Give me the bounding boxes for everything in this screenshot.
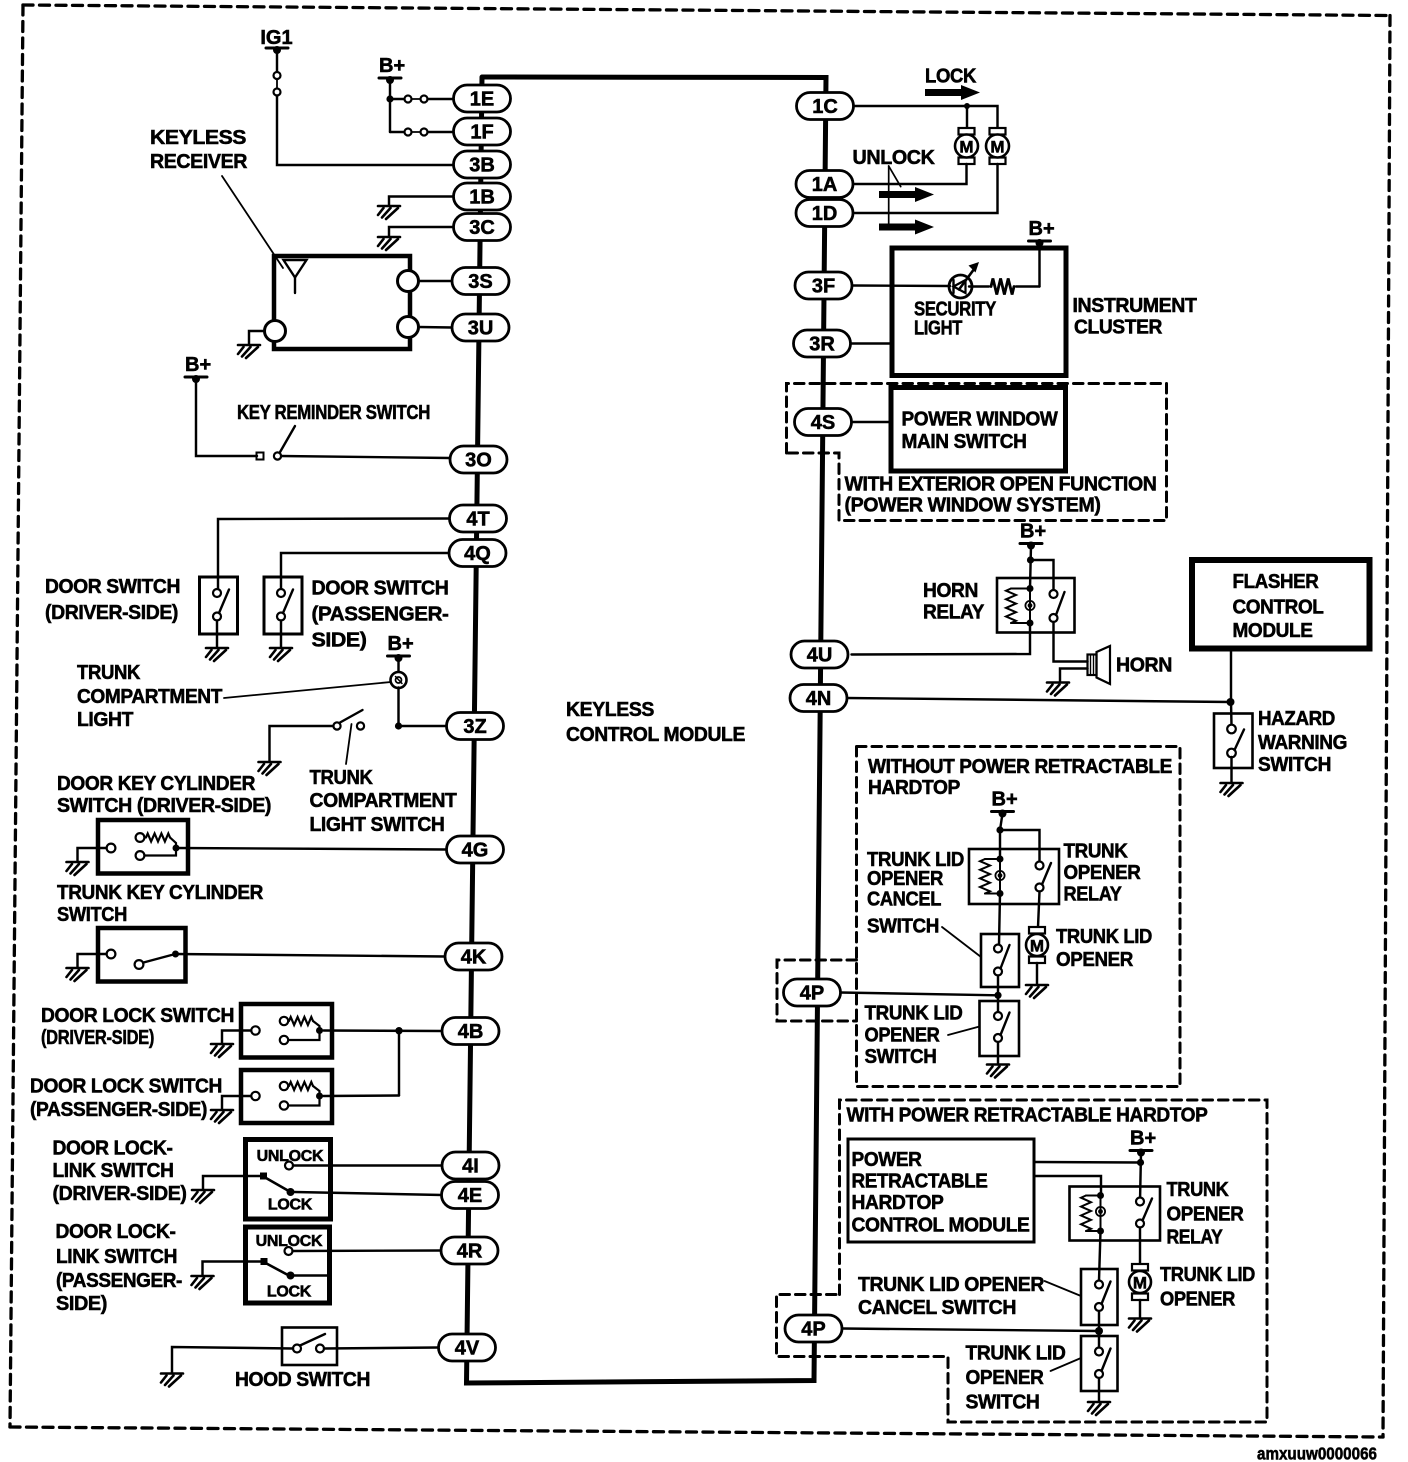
svg-text:RETRACTABLE: RETRACTABLE [852, 1171, 988, 1193]
flasher control module box [1192, 560, 1370, 649]
leader line to light switch [346, 724, 352, 764]
svg-text:TRUNK LID: TRUNK LID [1160, 1264, 1255, 1286]
label KEY REMINDER SWITCH [237, 402, 430, 424]
label HAZARD WARNING SWITCH [1258, 708, 1347, 776]
in-line connector on 1F wire [405, 129, 428, 136]
svg-text:3C: 3C [469, 217, 495, 239]
ground (door switch passenger) [270, 648, 292, 661]
dashed box: WITH POWER RETRACTABLE HARDTOP region [777, 1100, 1268, 1422]
trunk lid opener switch (PRHT) [1081, 1336, 1118, 1391]
ground (hazard switch) [1221, 783, 1243, 796]
connector 4P (upper) [784, 979, 841, 1006]
svg-text:HORN: HORN [1116, 655, 1172, 677]
svg-text:3S: 3S [468, 271, 492, 293]
in-line connector on IG1 wire [274, 72, 281, 96]
ground (3C) [378, 237, 400, 250]
wire relay switch to trunk lid opener motor [1038, 892, 1040, 928]
svg-text:1A: 1A [812, 174, 838, 196]
wire relay coil to cancel switch (PRHT) [1099, 1231, 1101, 1281]
svg-text:B+: B+ [992, 789, 1018, 811]
svg-text:WITH POWER RETRACTABLE HARDTOP: WITH POWER RETRACTABLE HARDTOP [847, 1105, 1208, 1127]
ground (trunk lid opener switch PRHT) [1088, 1402, 1110, 1415]
label DOOR SWITCH (DRIVER-SIDE) [45, 576, 180, 624]
svg-text:RELAY: RELAY [923, 602, 985, 624]
trunk lid opener cancel switch (PRHT) [1081, 1269, 1118, 1325]
svg-text:M: M [990, 138, 1004, 157]
label HORN [1116, 655, 1172, 677]
svg-text:SWITCH (DRIVER-SIDE): SWITCH (DRIVER-SIDE) [57, 795, 271, 817]
svg-text:(PASSENGER-: (PASSENGER- [312, 604, 449, 626]
door lock motor 1 [955, 128, 978, 164]
label TRUNK LID OPENER (PRHT motor) [1160, 1264, 1255, 1311]
wire to 1F [428, 131, 454, 133]
power terminal B+ (PRHT) [1130, 1128, 1156, 1157]
junction (4B wire) [395, 1027, 402, 1034]
junction (hazard node) [1227, 698, 1235, 706]
svg-text:LOCK: LOCK [267, 1284, 312, 1301]
wire link switch (passenger) to ground [203, 1262, 261, 1277]
svg-text:DOOR LOCK SWITCH: DOOR LOCK SWITCH [30, 1076, 222, 1098]
door lock-link switch (passenger-side) [246, 1227, 330, 1303]
svg-text:DOOR KEY CYLINDER: DOOR KEY CYLINDER [57, 773, 256, 795]
svg-text:B+: B+ [185, 354, 211, 376]
label TRUNK LID OPENER CANCEL SWITCH [867, 849, 964, 938]
svg-text:SWITCH: SWITCH [966, 1392, 1040, 1414]
connector 4G [447, 836, 504, 863]
wire cancel switch to opener switch [997, 976, 999, 1017]
junction (3Z wire) [395, 722, 402, 729]
svg-text:LIGHT: LIGHT [77, 709, 133, 731]
connector 4B [442, 1018, 499, 1045]
door lock switch (driver-side) [241, 1004, 332, 1058]
ground (link switch passenger) [192, 1276, 214, 1289]
connector 4Q [449, 540, 506, 567]
key reminder switch blade [280, 426, 296, 453]
svg-text:UNLOCK: UNLOCK [853, 147, 936, 169]
label DOOR LOCK-LINK SWITCH (PASSENGER-SIDE) [56, 1221, 183, 1315]
svg-text:RELAY: RELAY [1064, 884, 1123, 906]
receiver terminal (ground side) [265, 321, 286, 342]
receiver terminal (3S) [398, 271, 419, 292]
wire 3R to instrument cluster [851, 342, 893, 344]
svg-text:1B: 1B [469, 187, 495, 209]
leader line to trunk compartment light [224, 682, 391, 698]
wire relay switch to motor (PRHT) [1139, 1228, 1141, 1265]
label HOOD SWITCH [235, 1369, 370, 1391]
wire receiver to ground [249, 331, 265, 345]
ground (link switch driver) [192, 1190, 214, 1203]
connector 4N [790, 685, 847, 712]
svg-text:3F: 3F [812, 276, 835, 298]
svg-text:M: M [1133, 1274, 1147, 1293]
power terminal IG1 [260, 27, 292, 54]
ground (horn) [1047, 683, 1069, 696]
connector 4V [439, 1334, 496, 1361]
label DOOR SWITCH (PASSENGER-SIDE) [312, 578, 449, 652]
ground (door key cylinder) [67, 862, 89, 875]
connector 1C [797, 93, 854, 120]
svg-text:OPENER: OPENER [1160, 1289, 1236, 1311]
svg-text:CONTROL MODULE: CONTROL MODULE [852, 1215, 1030, 1237]
power window main switch box [891, 388, 1066, 472]
wire motor to ground (trunk lid opener) [1036, 963, 1038, 985]
connector 3B [454, 151, 511, 178]
wire cancel switch to opener switch (PRHT) [1098, 1311, 1100, 1352]
svg-text:(DRIVER-SIDE): (DRIVER-SIDE) [45, 602, 178, 624]
wire bulb to 3Z wire [397, 688, 399, 727]
ground (receiver) [238, 345, 260, 358]
svg-text:POWER: POWER [852, 1149, 923, 1171]
connector 3S [452, 268, 509, 295]
wire junction to relay coil (trunk opener) [999, 830, 1001, 859]
svg-text:4T: 4T [466, 509, 489, 531]
label HORN RELAY [923, 580, 985, 624]
trunk lid opener switch (without PRHT) [980, 1001, 1020, 1056]
label SECURITY LIGHT [914, 299, 997, 340]
trunk opener relay box [969, 849, 1059, 904]
junction (PRHT feed) [1137, 1159, 1144, 1166]
label TRUNK KEY CYLINDER SWITCH [57, 882, 264, 926]
wire motor 1 to 1A [853, 164, 967, 184]
wire B+ to junction [1000, 814, 1003, 831]
wire 4Q to door switch (passenger) [281, 553, 449, 589]
svg-text:DOOR LOCK-: DOOR LOCK- [56, 1221, 176, 1243]
svg-text:1C: 1C [812, 96, 838, 118]
ground (door switch driver) [206, 648, 228, 661]
leader line to cancel switch [942, 927, 981, 957]
connector 1A [796, 171, 853, 198]
leader line to cancel switch (PRHT) [1045, 1281, 1082, 1296]
wire junction down to passenger lock switch [398, 1031, 400, 1096]
power terminal B+ (instrument cluster) [1029, 218, 1055, 247]
svg-text:HARDTOP: HARDTOP [852, 1192, 944, 1214]
svg-text:4S: 4S [811, 412, 835, 434]
wire B+ to bulb [397, 658, 399, 673]
label WITH POWER RETRACTABLE HARDTOP [847, 1105, 1208, 1127]
svg-text:4R: 4R [457, 1241, 483, 1263]
svg-text:RELAY: RELAY [1167, 1227, 1224, 1249]
trunk key cylinder switch [98, 928, 186, 982]
ground (trunk light switch) [259, 762, 281, 775]
wire door lock switch (driver) to ground [222, 1031, 251, 1045]
label WITH EXTERIOR OPEN FUNCTION (POWER WINDOW SYSTEM) [845, 474, 1157, 517]
svg-text:SWITCH: SWITCH [867, 916, 939, 938]
wire hood switch to 4V [324, 1348, 439, 1349]
svg-text:LIGHT SWITCH: LIGHT SWITCH [310, 814, 445, 836]
door lock switch (passenger-side) [241, 1070, 332, 1123]
svg-text:(PASSENGER-: (PASSENGER- [56, 1270, 182, 1292]
label DOOR LOCK SWITCH (DRIVER-SIDE) [41, 1005, 234, 1049]
wire 4S to power window main switch [852, 421, 892, 423]
svg-text:DOOR SWITCH: DOOR SWITCH [45, 576, 180, 598]
wire hazard node to switch [1230, 702, 1233, 725]
wire 1B to ground [389, 197, 454, 207]
ground (1B) [378, 206, 400, 219]
label INSTRUMENT CLUSTER [1073, 295, 1197, 339]
svg-text:KEY REMINDER SWITCH: KEY REMINDER SWITCH [237, 402, 430, 424]
wire control module to relay coil [1034, 1176, 1101, 1196]
label TRUNK COMPARTMENT LIGHT [77, 662, 222, 731]
hazard warning switch [1214, 714, 1253, 769]
trunk lid opener cancel switch [981, 934, 1019, 987]
svg-text:TRUNK LID: TRUNK LID [966, 1343, 1066, 1365]
wire door switch (passenger) to ground [280, 621, 282, 649]
svg-text:HAZARD: HAZARD [1258, 708, 1335, 730]
svg-text:OPENER: OPENER [966, 1367, 1045, 1389]
svg-text:(POWER WINDOW SYSTEM): (POWER WINDOW SYSTEM) [845, 495, 1101, 517]
connector 4T [450, 505, 507, 532]
svg-text:SIDE): SIDE) [312, 630, 367, 652]
key reminder switch contact (square) [257, 453, 264, 460]
horn relay switch [1050, 590, 1065, 622]
ground (trunk lid opener PRHT) [1129, 1319, 1151, 1332]
ground (trunk lid opener switch) [987, 1065, 1009, 1078]
wire light switch to ground [270, 726, 334, 762]
horn [1088, 646, 1111, 684]
svg-text:TRUNK KEY CYLINDER: TRUNK KEY CYLINDER [57, 882, 264, 904]
wire resistor to B+ [1038, 243, 1040, 287]
security light LED [949, 262, 979, 298]
label LOCK [925, 66, 977, 88]
svg-text:WITH EXTERIOR OPEN FUNCTION: WITH EXTERIOR OPEN FUNCTION [845, 474, 1157, 496]
svg-text:TRUNK: TRUNK [1064, 841, 1129, 863]
svg-text:POWER WINDOW: POWER WINDOW [902, 409, 1058, 431]
svg-text:RECEIVER: RECEIVER [150, 151, 248, 173]
wire UNLOCK to 4R [293, 1249, 442, 1252]
svg-text:B+: B+ [388, 633, 414, 655]
svg-text:3R: 3R [809, 334, 835, 356]
svg-text:4I: 4I [462, 1156, 479, 1178]
connector 3O [450, 446, 507, 473]
svg-text:4U: 4U [807, 645, 833, 667]
svg-text:CONTROL: CONTROL [1233, 597, 1324, 619]
svg-text:(PASSENGER-SIDE): (PASSENGER-SIDE) [30, 1099, 207, 1121]
leader line to keyless receiver [222, 176, 283, 268]
receiver terminal (3U) [398, 317, 419, 338]
dashed box: 4P connector region (upper) [777, 960, 857, 1021]
svg-text:OPENER: OPENER [1064, 862, 1142, 884]
junction on B+ wire [386, 95, 393, 102]
svg-text:FLASHER: FLASHER [1233, 571, 1320, 593]
svg-text:4Q: 4Q [464, 543, 491, 565]
wire IG1 down [276, 50, 278, 72]
wire receiver to 3S [419, 280, 453, 282]
trunk compartment light switch contacts [333, 722, 364, 729]
label TRUNK LID OPENER SWITCH [865, 1003, 963, 1069]
wire door switch (driver) to ground [216, 621, 218, 649]
svg-text:DOOR LOCK-: DOOR LOCK- [53, 1138, 173, 1160]
instrument cluster box [892, 248, 1066, 376]
leader line UNLOCK [889, 166, 901, 228]
svg-text:OPENER: OPENER [1056, 949, 1134, 971]
svg-text:4K: 4K [461, 947, 487, 969]
trunk lid opener motor [1026, 927, 1048, 963]
ground (hood switch) [161, 1374, 183, 1387]
connector 4E [442, 1182, 499, 1209]
wire horn relay switch to horn [1054, 622, 1088, 662]
wire junction to 1F connector [390, 131, 404, 133]
svg-text:B+: B+ [1020, 521, 1046, 543]
wire door lock switch (driver) to 4B [324, 1029, 443, 1032]
wire 3F to security light [853, 284, 951, 287]
svg-text:COMPARTMENT: COMPARTMENT [310, 790, 457, 812]
wire motor 2 to 1D [853, 164, 998, 213]
wire 1C to motors [854, 106, 998, 129]
trunk opener relay switch [1036, 862, 1052, 892]
label TRUNK OPENER RELAY [1064, 841, 1142, 906]
wire junction to 3Z [399, 725, 447, 727]
svg-text:4P: 4P [800, 983, 824, 1005]
connector 3U [452, 314, 509, 341]
wire key cylinder (driver) to 4G [176, 848, 447, 850]
trunk opener relay coil (PRHT) [1081, 1192, 1105, 1235]
svg-text:B+: B+ [1029, 218, 1055, 240]
wire opener switch to ground (PRHT) [1098, 1378, 1100, 1402]
label DOOR LOCK-LINK SWITCH (DRIVER-SIDE) [53, 1138, 187, 1206]
svg-text:LIGHT: LIGHT [914, 318, 962, 340]
svg-text:M: M [959, 138, 973, 157]
keyless control module outline [467, 77, 827, 1383]
svg-text:amxuuw0000066: amxuuw0000066 [1257, 1444, 1377, 1462]
svg-text:3Z: 3Z [463, 716, 486, 738]
connector 4U [791, 641, 848, 668]
junction (motor 1 branch) [964, 103, 970, 129]
svg-text:4B: 4B [458, 1021, 484, 1043]
svg-text:MAIN SWITCH: MAIN SWITCH [902, 431, 1027, 453]
wire B+ down [389, 80, 391, 132]
svg-text:TRUNK: TRUNK [1167, 1179, 1230, 1201]
wire B+ down to relay switch (PRHT) [1140, 1153, 1141, 1202]
svg-text:TRUNK LID: TRUNK LID [1056, 926, 1152, 948]
svg-text:3U: 3U [468, 318, 494, 340]
wire receiver to 3U [419, 326, 453, 329]
figure number amxuuw0000066 [1257, 1444, 1377, 1462]
svg-text:WARNING: WARNING [1258, 732, 1347, 754]
svg-text:4G: 4G [462, 840, 489, 862]
connector 1F [454, 118, 511, 145]
ground (door lock switch passenger) [211, 1110, 233, 1123]
power retractable hardtop control module box [848, 1139, 1034, 1242]
svg-text:1D: 1D [812, 203, 838, 225]
svg-text:TRUNK: TRUNK [310, 767, 374, 789]
keyless receiver box [274, 256, 410, 349]
label DOOR LOCK SWITCH (PASSENGER-SIDE) [30, 1076, 222, 1122]
wire IG1 to 3B [277, 96, 454, 166]
leader line to opener switch [948, 1027, 980, 1036]
power terminal B+ (1E/1F feed) [379, 55, 405, 84]
wire horn relay coil to 4U [852, 623, 1031, 655]
ground (trunk key cylinder) [67, 968, 89, 981]
connector 3C [454, 214, 511, 241]
resistor (security light) [969, 279, 1040, 295]
connector 4R [441, 1237, 498, 1264]
leader line to opener switch (PRHT) [1051, 1358, 1082, 1371]
junction (4P node upper) [994, 992, 1001, 999]
wire door lock switch (passenger) to ground [222, 1096, 251, 1110]
power terminal B+ (trunk opener) [992, 789, 1018, 818]
wire junction to 1E connector [390, 98, 404, 100]
svg-text:SWITCH: SWITCH [1258, 754, 1331, 776]
wire opener switch to ground [997, 1042, 999, 1065]
wire horn to ground [1060, 669, 1088, 683]
connector 1B [454, 183, 511, 210]
label TRUNK COMPARTMENT LIGHT SWITCH [310, 767, 457, 836]
svg-text:OPENER: OPENER [867, 868, 944, 890]
label TRUNK LID OPENER (motor) [1056, 926, 1152, 971]
wire 4P to junction (lower) [843, 1329, 1100, 1332]
horn relay box [997, 578, 1075, 633]
connector 3Z [447, 713, 504, 740]
svg-text:OPENER: OPENER [865, 1025, 941, 1047]
wire UNLOCK to 4I [293, 1164, 442, 1166]
svg-text:1E: 1E [470, 89, 494, 111]
svg-text:LINK SWITCH: LINK SWITCH [53, 1160, 174, 1182]
svg-text:(DRIVER-SIDE): (DRIVER-SIDE) [53, 1183, 187, 1205]
label UNLOCK [853, 147, 936, 169]
in-line connector on 1E wire [405, 96, 428, 103]
label TRUNK OPENER RELAY (PRHT) [1167, 1179, 1245, 1249]
ground (door lock switch driver) [211, 1044, 233, 1057]
svg-text:CLUSTER: CLUSTER [1074, 317, 1163, 339]
trunk lid opener motor (PRHT) [1129, 1264, 1151, 1300]
svg-text:TRUNK LID OPENER: TRUNK LID OPENER [858, 1274, 1045, 1296]
wire 4P to junction [841, 993, 999, 996]
wire 3C to ground [389, 227, 454, 237]
svg-text:SWITCH: SWITCH [57, 904, 127, 926]
wire B+ into horn relay [1030, 546, 1031, 589]
svg-text:CANCEL SWITCH: CANCEL SWITCH [858, 1297, 1016, 1319]
power terminal B+ (key reminder) [185, 354, 211, 383]
connector 4I [442, 1152, 499, 1179]
wire B+ to key reminder switch [196, 379, 257, 456]
svg-text:CANCEL: CANCEL [867, 889, 941, 911]
wire relay coil to cancel switch [999, 894, 1000, 945]
door lock-link switch (driver-side) [246, 1140, 331, 1220]
wire to 1E [428, 98, 454, 100]
svg-text:CONTROL MODULE: CONTROL MODULE [566, 724, 745, 746]
label TRUNK LID OPENER CANCEL SWITCH (PRHT) [858, 1274, 1045, 1319]
svg-text:4E: 4E [458, 1185, 482, 1207]
junction (trunk opener feed) [996, 826, 1003, 833]
label KEYLESS CONTROL MODULE [566, 699, 745, 746]
svg-text:HORN: HORN [923, 580, 978, 602]
power terminal B+ (horn relay) [1020, 521, 1046, 550]
svg-text:LOCK: LOCK [925, 66, 977, 88]
svg-text:M: M [1030, 937, 1044, 956]
svg-text:SWITCH: SWITCH [865, 1046, 937, 1068]
svg-text:SIDE): SIDE) [56, 1293, 107, 1315]
svg-text:INSTRUMENT: INSTRUMENT [1073, 295, 1197, 317]
junction (4P node lower) [1095, 1327, 1103, 1335]
svg-text:3B: 3B [469, 155, 495, 177]
horn relay coil [1006, 585, 1035, 627]
connector 1E [454, 85, 511, 112]
connector 3F [795, 272, 852, 299]
svg-text:DOOR LOCK SWITCH: DOOR LOCK SWITCH [41, 1005, 234, 1027]
label KEYLESS RECEIVER [150, 127, 248, 173]
junction (horn relay feed) [1027, 556, 1034, 563]
svg-text:(DRIVER-SIDE): (DRIVER-SIDE) [41, 1027, 154, 1049]
arrow UNLOCK (1D) [879, 220, 934, 235]
label TRUNK LID OPENER SWITCH (PRHT) [966, 1343, 1066, 1414]
wire flasher control module to hazard node [1230, 649, 1232, 703]
svg-text:TRUNK: TRUNK [77, 662, 141, 684]
svg-text:TRUNK LID: TRUNK LID [865, 1003, 963, 1025]
svg-text:KEYLESS: KEYLESS [566, 699, 654, 721]
wire junction to relay switch [1031, 560, 1054, 590]
wire trunk key cylinder to 4K [176, 954, 446, 957]
door lock motor 2 [986, 128, 1009, 164]
